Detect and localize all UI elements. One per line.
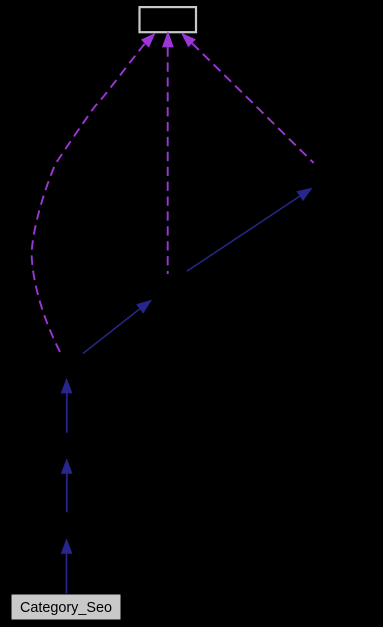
svg-text:Category_Seo: Category_Seo xyxy=(20,600,112,616)
arrowhead blue at n5 xyxy=(136,300,152,314)
arrowhead blue at n3 xyxy=(61,458,73,474)
wire purple dashed n6 to top-box (right line) xyxy=(192,43,314,163)
arrowhead purple center xyxy=(162,31,174,48)
wire blue n3 to n4 xyxy=(66,393,68,433)
arrowhead blue at n6 xyxy=(296,188,312,202)
arrowhead purple right xyxy=(181,33,196,48)
wire blue n4 to n5 (diagonal) xyxy=(83,309,140,354)
arrowhead purple left xyxy=(141,33,156,48)
wire blue n5 to n6 (diagonal) xyxy=(187,196,300,271)
node Category_Seo xyxy=(11,594,121,620)
arrowhead blue at n4 xyxy=(61,378,73,394)
wire blue n2 to n3 xyxy=(66,473,68,512)
arrowhead blue at n2 xyxy=(61,538,73,554)
node top-box (empty bordered node) xyxy=(140,7,197,32)
wire purple dashed n5 to top-box (vertical) xyxy=(167,48,169,275)
wire purple dashed n4 to top-box (left big curve) xyxy=(32,44,145,352)
wire blue Category_Seo to n2 xyxy=(66,554,68,594)
